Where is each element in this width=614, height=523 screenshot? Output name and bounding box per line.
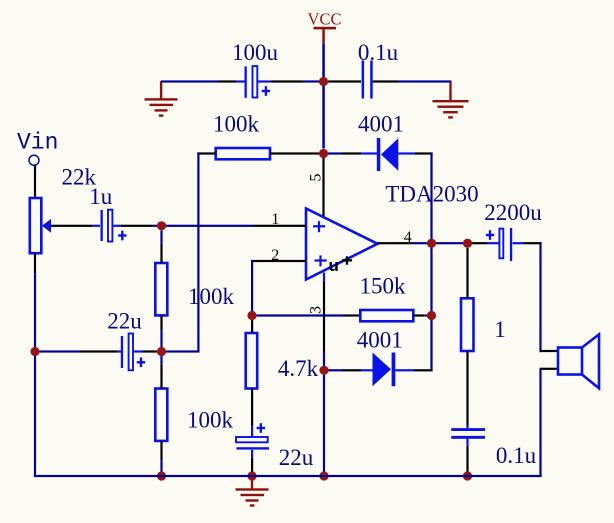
svg-text:1: 1 xyxy=(271,211,279,228)
node: 150k / diode branch on output column xyxy=(427,311,436,320)
wire op-amp output to node xyxy=(378,242,413,244)
node: pin5 / diode junction xyxy=(319,149,328,158)
wire bias node down to R6 xyxy=(160,356,162,365)
resistor R1 100k (horizontal, feedback top) xyxy=(213,112,270,160)
svg-text:1u: 1u xyxy=(89,184,113,209)
wire bias node right to corner column xyxy=(166,350,200,352)
svg-text:Vin: Vin xyxy=(17,130,58,156)
wire D2 to corner up to 150k node xyxy=(395,369,413,371)
wire top rail: ground to 100u xyxy=(161,80,219,82)
ground (top right) xyxy=(433,82,469,119)
node: VCC top rail junction xyxy=(319,77,328,86)
svg-text:3: 3 xyxy=(307,306,324,314)
svg-text:VCC: VCC xyxy=(308,10,342,29)
wire left rail node down to bottom rail xyxy=(34,356,36,477)
capacitor C3 1u xyxy=(89,184,126,242)
resistor R6 100k (lower bias) xyxy=(155,389,233,441)
wire output node down to R3 xyxy=(466,248,468,298)
svg-text:4.7k: 4.7k xyxy=(278,356,319,381)
svg-text:u: u xyxy=(329,256,339,275)
svg-text:1: 1 xyxy=(494,317,506,342)
svg-text:100k: 100k xyxy=(187,408,234,433)
bottom ground rail xyxy=(34,475,542,477)
node: left rail 22u junction xyxy=(30,347,39,356)
wire 150k right to output branch node xyxy=(413,314,424,316)
wire 0.1u down to bottom rail xyxy=(466,439,468,446)
wire pin 2 to corner and down xyxy=(251,260,306,262)
wire 2200u right to corner and down to speaker xyxy=(513,242,524,244)
wire 4.7k down to 22u xyxy=(251,389,253,426)
ground (bottom) xyxy=(236,477,269,507)
svg-text:0.1u: 0.1u xyxy=(496,443,537,468)
wire wiper to 1u cap xyxy=(51,225,92,227)
wire 22u down to rail xyxy=(251,450,253,458)
wire VCC stem down to top rail node xyxy=(322,43,325,82)
svg-text:4001: 4001 xyxy=(357,328,403,353)
ground (top left) xyxy=(145,81,178,117)
wire between output nodes xyxy=(436,242,463,244)
wire node to 2200u xyxy=(472,242,487,244)
Vin terminal circle xyxy=(29,155,39,165)
node: lower diode junction xyxy=(319,366,328,375)
wire feedback node down to 4.7k xyxy=(251,320,253,333)
VCC power symbol xyxy=(308,10,342,44)
wire left node right to 22u cap xyxy=(40,350,81,352)
wire feedback node to 150k xyxy=(257,314,344,316)
wire pin5 node down to op-amp xyxy=(322,158,324,218)
capacitor C7 22u (bias decoupling) xyxy=(107,309,145,371)
speaker LS1 xyxy=(558,334,599,388)
diode D1 4001 xyxy=(358,112,404,172)
svg-text:100k: 100k xyxy=(188,284,235,309)
wire pot bottom down left rail xyxy=(34,253,36,273)
diode D2 4001 xyxy=(357,328,403,387)
svg-text:2200u: 2200u xyxy=(484,200,542,225)
label u+ (black) xyxy=(329,256,353,275)
resistor R2 150k xyxy=(360,274,414,322)
wire 100u to center node xyxy=(258,80,271,82)
capacitor C6 22u (bottom) xyxy=(236,423,314,470)
svg-text:150k: 150k xyxy=(360,274,407,299)
resistor R3 1 (output Zobel) xyxy=(461,298,506,351)
wire pin1 node to op-amp pin 1 xyxy=(166,225,253,227)
svg-text:100k: 100k xyxy=(213,112,260,137)
wire pin5 node right to diode D1 xyxy=(328,152,342,154)
node: pin1 input node xyxy=(157,221,166,230)
resistor R4 4.7k xyxy=(246,333,319,389)
wire D1 to right corner, down to output node xyxy=(398,152,414,154)
wire pin1 node down to R5 xyxy=(160,230,162,244)
svg-text:22u: 22u xyxy=(279,445,314,470)
node: bottom rail right xyxy=(463,471,472,480)
resistor R5 100k (upper bias) xyxy=(155,263,234,315)
node: bottom rail (ground stem) xyxy=(247,471,256,480)
wire Vin to pot xyxy=(34,166,36,199)
node: bias mid node xyxy=(157,347,166,356)
wire speaker bottom stub xyxy=(540,368,559,370)
wire R3 down to 0.1u xyxy=(466,351,468,426)
op-amp U1 triangle xyxy=(306,209,378,280)
svg-text:TDA2030: TDA2030 xyxy=(385,182,478,207)
svg-text:100u: 100u xyxy=(232,40,279,65)
wire node to 0.1u xyxy=(328,80,361,82)
capacitor C1 100u xyxy=(232,40,279,98)
wire R1 right to pin5 node xyxy=(270,152,319,154)
wire 1u to pin1 node xyxy=(113,225,121,227)
wire 0.1u to right ground xyxy=(373,80,398,82)
wire 22u to bias node xyxy=(134,350,143,352)
pin 3 stub from op-amp xyxy=(323,273,325,282)
capacitor C2 0.1u xyxy=(358,40,399,99)
svg-text:4001: 4001 xyxy=(358,112,404,137)
node: output pin4 xyxy=(427,239,436,248)
node: feedback junction xyxy=(247,311,256,320)
potentiometer RP 22k xyxy=(30,165,97,254)
wire diode node to D2 xyxy=(329,369,343,371)
wire R6 down to rail xyxy=(160,441,162,460)
wire VCC node down to pin5 node xyxy=(322,86,325,149)
wire speaker top stub xyxy=(540,350,559,352)
node: bottom rail pin3 column xyxy=(319,471,328,480)
wire R1 left to corner and down xyxy=(197,152,215,154)
wire R5 down to bias node xyxy=(160,315,162,330)
wire speaker bottom down to rail corner xyxy=(539,369,541,477)
capacitor C5 0.1u (Zobel) xyxy=(451,428,536,468)
svg-text:22u: 22u xyxy=(107,309,142,334)
capacitor C4 2200u xyxy=(484,200,542,261)
node: bottom rail left-center xyxy=(157,471,166,480)
svg-text:5: 5 xyxy=(307,174,324,182)
node: output / Zobel branch xyxy=(463,239,472,248)
wire pin3 column node down to rail xyxy=(323,375,325,476)
